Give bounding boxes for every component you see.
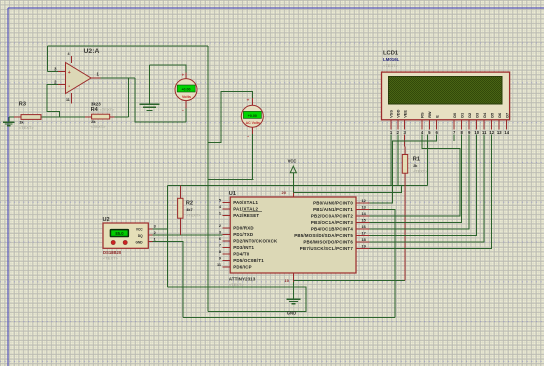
U2 button minus [123, 240, 127, 244]
svg-text:<TEXT>: <TEXT> [413, 169, 428, 173]
svg-text:3k23: 3k23 [91, 101, 101, 106]
U1 body [230, 197, 356, 273]
wire LCD D5 to U1 [370, 135, 492, 249]
svg-text:PD2/INT0/CKO/XCK: PD2/INT0/CKO/XCK [233, 238, 278, 243]
voltmeter PV1 + lead [185, 73, 187, 80]
ground G1 stem [8, 117, 10, 122]
svg-text:8: 8 [219, 250, 221, 254]
LCD VEE to R1 [404, 135, 406, 147]
svg-text:+: + [68, 70, 71, 76]
svg-text:PB6/MISO/DO/PCINT6: PB6/MISO/DO/PCINT6 [303, 239, 353, 244]
svg-text:<TEXT>: <TEXT> [19, 125, 35, 130]
svg-text:U2: U2 [103, 217, 110, 223]
svg-text:PA2/RESET: PA2/RESET [233, 213, 259, 218]
svg-text:-: - [247, 133, 249, 139]
wire ground to R3 [9, 116, 14, 118]
value R2 4k7 [186, 208, 192, 212]
svg-text:D0: D0 [452, 113, 457, 118]
svg-text:+0.00: +0.00 [248, 114, 257, 118]
op-amp U2:A output lead [91, 77, 101, 79]
U2 button plus [111, 240, 115, 244]
LCD1 pins [389, 109, 510, 135]
U2 pin label DQ [138, 234, 143, 238]
text R2 placeholder [186, 213, 201, 217]
svg-text:+: + [182, 72, 185, 77]
wire LCD D2 to U1 [370, 135, 470, 230]
U2 pin label VCC [136, 227, 143, 231]
svg-text:VCC: VCC [288, 159, 297, 164]
svg-text:R2: R2 [186, 201, 193, 207]
svg-text:<TEXT>: <TEXT> [91, 124, 107, 129]
wire U1 pin13 to bottom rail [370, 210, 395, 212]
wire op-amp output [101, 77, 136, 79]
wire VCC pin20 rail [293, 185, 401, 192]
wire H_gnd upper (VSS/VDD/RW colinear) [168, 184, 428, 186]
svg-text:6: 6 [219, 237, 221, 241]
svg-text:PB4/OC1B/PCINT4: PB4/OC1B/PCINT4 [311, 226, 353, 231]
svg-text:17: 17 [362, 231, 366, 235]
svg-text:PB2/OC0A/PCINT2: PB2/OC0A/PCINT2 [311, 213, 353, 218]
svg-text:15: 15 [362, 218, 366, 222]
wire LCD D3 to U1 [370, 135, 477, 236]
value R4 2k [91, 119, 96, 124]
label LM016L [383, 57, 400, 62]
svg-text:PB7/USCK/SCL/PCINT7: PB7/USCK/SCL/PCINT7 [300, 246, 354, 251]
svg-text:D5: D5 [489, 112, 494, 118]
svg-text:85.0: 85.0 [115, 231, 124, 236]
svg-text:GND: GND [287, 311, 296, 316]
wire R3 to R4 rail [41, 116, 92, 118]
wire voltmeter top [150, 65, 187, 73]
text R3 placeholder [19, 125, 35, 130]
svg-text:<TEXT>: <TEXT> [186, 213, 201, 217]
resistor R1 body [402, 155, 407, 174]
op-amp U2:A V- pin11 lead [71, 93, 73, 103]
op-amp U2:A body [66, 63, 92, 94]
U2 DS18B20 body [103, 223, 148, 248]
label R3 [19, 102, 26, 108]
U2 pin number 1 [154, 237, 156, 241]
wire U2 VCC [152, 228, 167, 230]
op-amp pin number 3 [54, 67, 57, 72]
wire voltmeter minus branch [135, 78, 186, 122]
svg-text:3: 3 [219, 230, 221, 234]
wire AC voltmeter plus branch [208, 91, 252, 142]
wire R4 right to feedback node [115, 116, 129, 118]
wire LCD RS staircase to U1 pin14 [370, 135, 460, 217]
svg-text:1: 1 [219, 211, 221, 215]
ground G3 (GND) [286, 299, 300, 303]
wire AC voltmeter minus drop [251, 134, 253, 180]
svg-text:VDD: VDD [396, 109, 401, 117]
svg-text:2: 2 [219, 224, 221, 228]
voltmeter PV1 - lead [185, 100, 187, 109]
wire LCD D1 to U1 [370, 135, 462, 223]
svg-text:10: 10 [474, 130, 479, 135]
svg-text:D3: D3 [474, 112, 479, 118]
op-amp pin number 1 [97, 72, 100, 77]
label GND [287, 311, 296, 316]
svg-text:ATTINY2313: ATTINY2313 [229, 276, 256, 281]
svg-text:14: 14 [504, 130, 509, 135]
svg-text:4: 4 [68, 52, 70, 56]
resistor R3 body [21, 115, 41, 120]
resistor R3 leads [14, 116, 47, 118]
label U1 [229, 191, 236, 197]
resistor R2 body [178, 198, 183, 218]
wire pin10 to ground [293, 282, 295, 300]
wire ground rail right [294, 280, 406, 282]
svg-text:PD0/RXD: PD0/RXD [233, 225, 254, 230]
svg-text:VEE: VEE [402, 110, 407, 118]
svg-text:PD6/ICP: PD6/ICP [233, 264, 252, 269]
svg-text:-: - [182, 108, 184, 114]
svg-text:11: 11 [482, 130, 487, 135]
svg-text:PB1/AIN1/PCINT1: PB1/AIN1/PCINT1 [313, 207, 353, 212]
LCD1 screen [388, 77, 502, 104]
svg-text:<TEXT>: <TEXT> [100, 107, 116, 112]
label R1 [413, 157, 420, 163]
wire LCD D0 stub [453, 135, 455, 142]
label DS18B20 [103, 250, 122, 255]
wire main vertical rail [207, 46, 209, 312]
U2 pin number 3 [154, 224, 156, 228]
text LCD placeholder [383, 63, 399, 68]
ground G2 [139, 104, 159, 110]
svg-text:4k7: 4k7 [186, 208, 192, 212]
text U2 placeholder [103, 256, 119, 261]
wire LCD D4 to U1 [370, 135, 485, 243]
wire op-amp pin2 loop to R3/R4 rail [47, 85, 60, 118]
wire voltmeter bottom [185, 109, 187, 123]
svg-text:-: - [68, 84, 70, 90]
svg-text:GND: GND [136, 240, 144, 244]
text R4 placeholder [91, 124, 107, 129]
wire LCD RW down [427, 135, 429, 186]
label R4 3k23 [91, 101, 101, 106]
U1 pin20 number [282, 190, 287, 195]
svg-text:LM016L: LM016L [383, 57, 400, 62]
svg-text:VCC: VCC [136, 227, 143, 231]
svg-text:PD4/T0: PD4/T0 [233, 251, 250, 256]
wire snake bottom [168, 287, 306, 312]
AC voltmeter body [241, 105, 263, 127]
U2 pin leads [148, 229, 152, 242]
svg-text:PB3/OC1A/PCINT3: PB3/OC1A/PCINT3 [311, 220, 353, 225]
svg-text:R1: R1 [413, 157, 420, 163]
svg-text:1k: 1k [19, 120, 24, 125]
svg-text:PD1/TXD: PD1/TXD [233, 232, 253, 237]
wire snake left vertical [167, 186, 169, 288]
svg-text:<TEXT>: <TEXT> [103, 256, 119, 261]
svg-text:AC Volts: AC Volts [246, 121, 260, 125]
text U1 placeholder [229, 282, 245, 287]
voltmeter PV1 body [175, 79, 197, 101]
value R1 2k [413, 164, 418, 168]
faint blue grid dot rows [0, 43, 544, 44]
op-amp pin number 11 [66, 98, 70, 102]
wire bottom ground rail [183, 317, 395, 319]
AC voltmeter plus sign [247, 98, 250, 103]
voltmeter PV1 minus sign [182, 108, 184, 114]
svg-text:12: 12 [362, 199, 366, 203]
svg-text:U2:A: U2:A [84, 48, 100, 55]
svg-text:10: 10 [285, 278, 290, 283]
ground G1 [3, 122, 14, 125]
wire top rail (op-amp +input to AC voltmeter branch) [48, 45, 209, 47]
label U2 [103, 217, 110, 223]
AC voltmeter minus sign [247, 133, 249, 139]
op-amp U2:A pin3 lead [58, 71, 66, 73]
op-amp U2:A pin2 lead [58, 84, 66, 86]
wire to op-amp pin3 [48, 71, 59, 73]
svg-text:R3: R3 [19, 102, 26, 108]
svg-text:DQ: DQ [138, 234, 143, 238]
svg-text:1: 1 [154, 237, 156, 241]
resistor R2 leads [179, 186, 181, 236]
svg-text:13: 13 [497, 130, 502, 135]
label U2:A [84, 48, 100, 55]
svg-text:RS: RS [420, 112, 425, 118]
wire op-amp +input drop [47, 46, 49, 72]
wire feedback drop to R4 [128, 78, 130, 117]
U1 left pins [217, 198, 278, 269]
svg-text:PB0/AIN0/PCINT0: PB0/AIN0/PCINT0 [313, 200, 353, 205]
svg-text:11: 11 [66, 98, 70, 102]
ground G2 stem [149, 65, 151, 104]
svg-text:D6: D6 [497, 112, 502, 118]
voltmeter PV1 plus sign [182, 72, 185, 77]
svg-text:RW: RW [427, 111, 432, 118]
svg-text:18: 18 [362, 238, 366, 242]
svg-text:PA1/XTAL2: PA1/XTAL2 [233, 206, 258, 211]
op-amp U2:A V+ pin4 lead [71, 56, 73, 63]
svg-text:7: 7 [219, 243, 221, 247]
text R1 placeholder [413, 169, 428, 173]
svg-text:<TEXT>: <TEXT> [383, 63, 399, 68]
AC voltmeter - lead [251, 127, 253, 134]
resistor R4 leads [85, 116, 115, 118]
svg-text:<TEXT>: <TEXT> [229, 282, 245, 287]
svg-text:PA0/XTAL1: PA0/XTAL1 [233, 200, 258, 205]
svg-text:DS18B20: DS18B20 [103, 250, 122, 255]
AC voltmeter + lead [251, 98, 253, 105]
label ATTINY2313 [229, 276, 256, 281]
U1 pin10 lead [293, 273, 295, 282]
label R2 [186, 201, 193, 207]
wire bottom rail riser [394, 211, 396, 317]
U2 display [110, 229, 129, 237]
U2 pin number 2 [154, 231, 156, 235]
wire LCD E staircase to U1 pin12 [370, 135, 437, 204]
op-amp pin number 2 [54, 80, 57, 85]
op-amp pin number 4 [68, 52, 70, 56]
svg-text:LCD1: LCD1 [383, 50, 399, 56]
wire LCD VSS down [390, 135, 392, 186]
svg-text:12: 12 [489, 130, 494, 135]
LCD1 body [382, 72, 510, 120]
svg-text:+: + [247, 98, 250, 103]
U2 pin label GND [136, 240, 144, 244]
value R3 1k [19, 120, 24, 125]
svg-text:D4: D4 [482, 112, 487, 118]
label R4 [91, 107, 115, 113]
svg-text:D2: D2 [467, 112, 472, 118]
vcc symbol [288, 159, 297, 193]
svg-text:VSS: VSS [389, 110, 394, 118]
svg-text:R4: R4 [91, 107, 99, 113]
svg-text:9: 9 [219, 256, 221, 260]
svg-text:U1: U1 [229, 191, 236, 197]
svg-text:2: 2 [154, 231, 156, 235]
svg-text:20: 20 [282, 190, 287, 195]
wire U2 DQ [152, 234, 222, 236]
wire LCD VDD down [397, 135, 399, 186]
svg-text:11: 11 [217, 263, 221, 267]
svg-text:PD5/OC0B/T1: PD5/OC0B/T1 [233, 258, 264, 263]
resistor R4 body [92, 114, 110, 119]
label LCD1 [383, 50, 399, 56]
svg-text:19: 19 [362, 244, 366, 248]
svg-text:D7: D7 [504, 113, 509, 118]
U1 pin10 number [285, 278, 290, 283]
U1 right pins [294, 199, 369, 251]
svg-text:D1: D1 [459, 112, 464, 118]
U1 pin20 VCC lead [292, 192, 294, 197]
resistor R1 leads [404, 147, 406, 281]
svg-text:16: 16 [362, 225, 366, 229]
svg-text:13: 13 [362, 205, 366, 209]
svg-text:E: E [434, 115, 439, 118]
svg-text:Volts: Volts [182, 94, 191, 99]
svg-text:3: 3 [154, 224, 156, 228]
svg-text:5: 5 [219, 198, 221, 202]
wire VCC rail [208, 179, 253, 181]
wire U2 GND [152, 242, 183, 318]
svg-text:PD3/INT1: PD3/INT1 [233, 245, 254, 250]
svg-text:+0.00: +0.00 [181, 88, 190, 92]
svg-text:PB5/MOSI/DI/SDA/PCINT5: PB5/MOSI/DI/SDA/PCINT5 [294, 233, 353, 238]
